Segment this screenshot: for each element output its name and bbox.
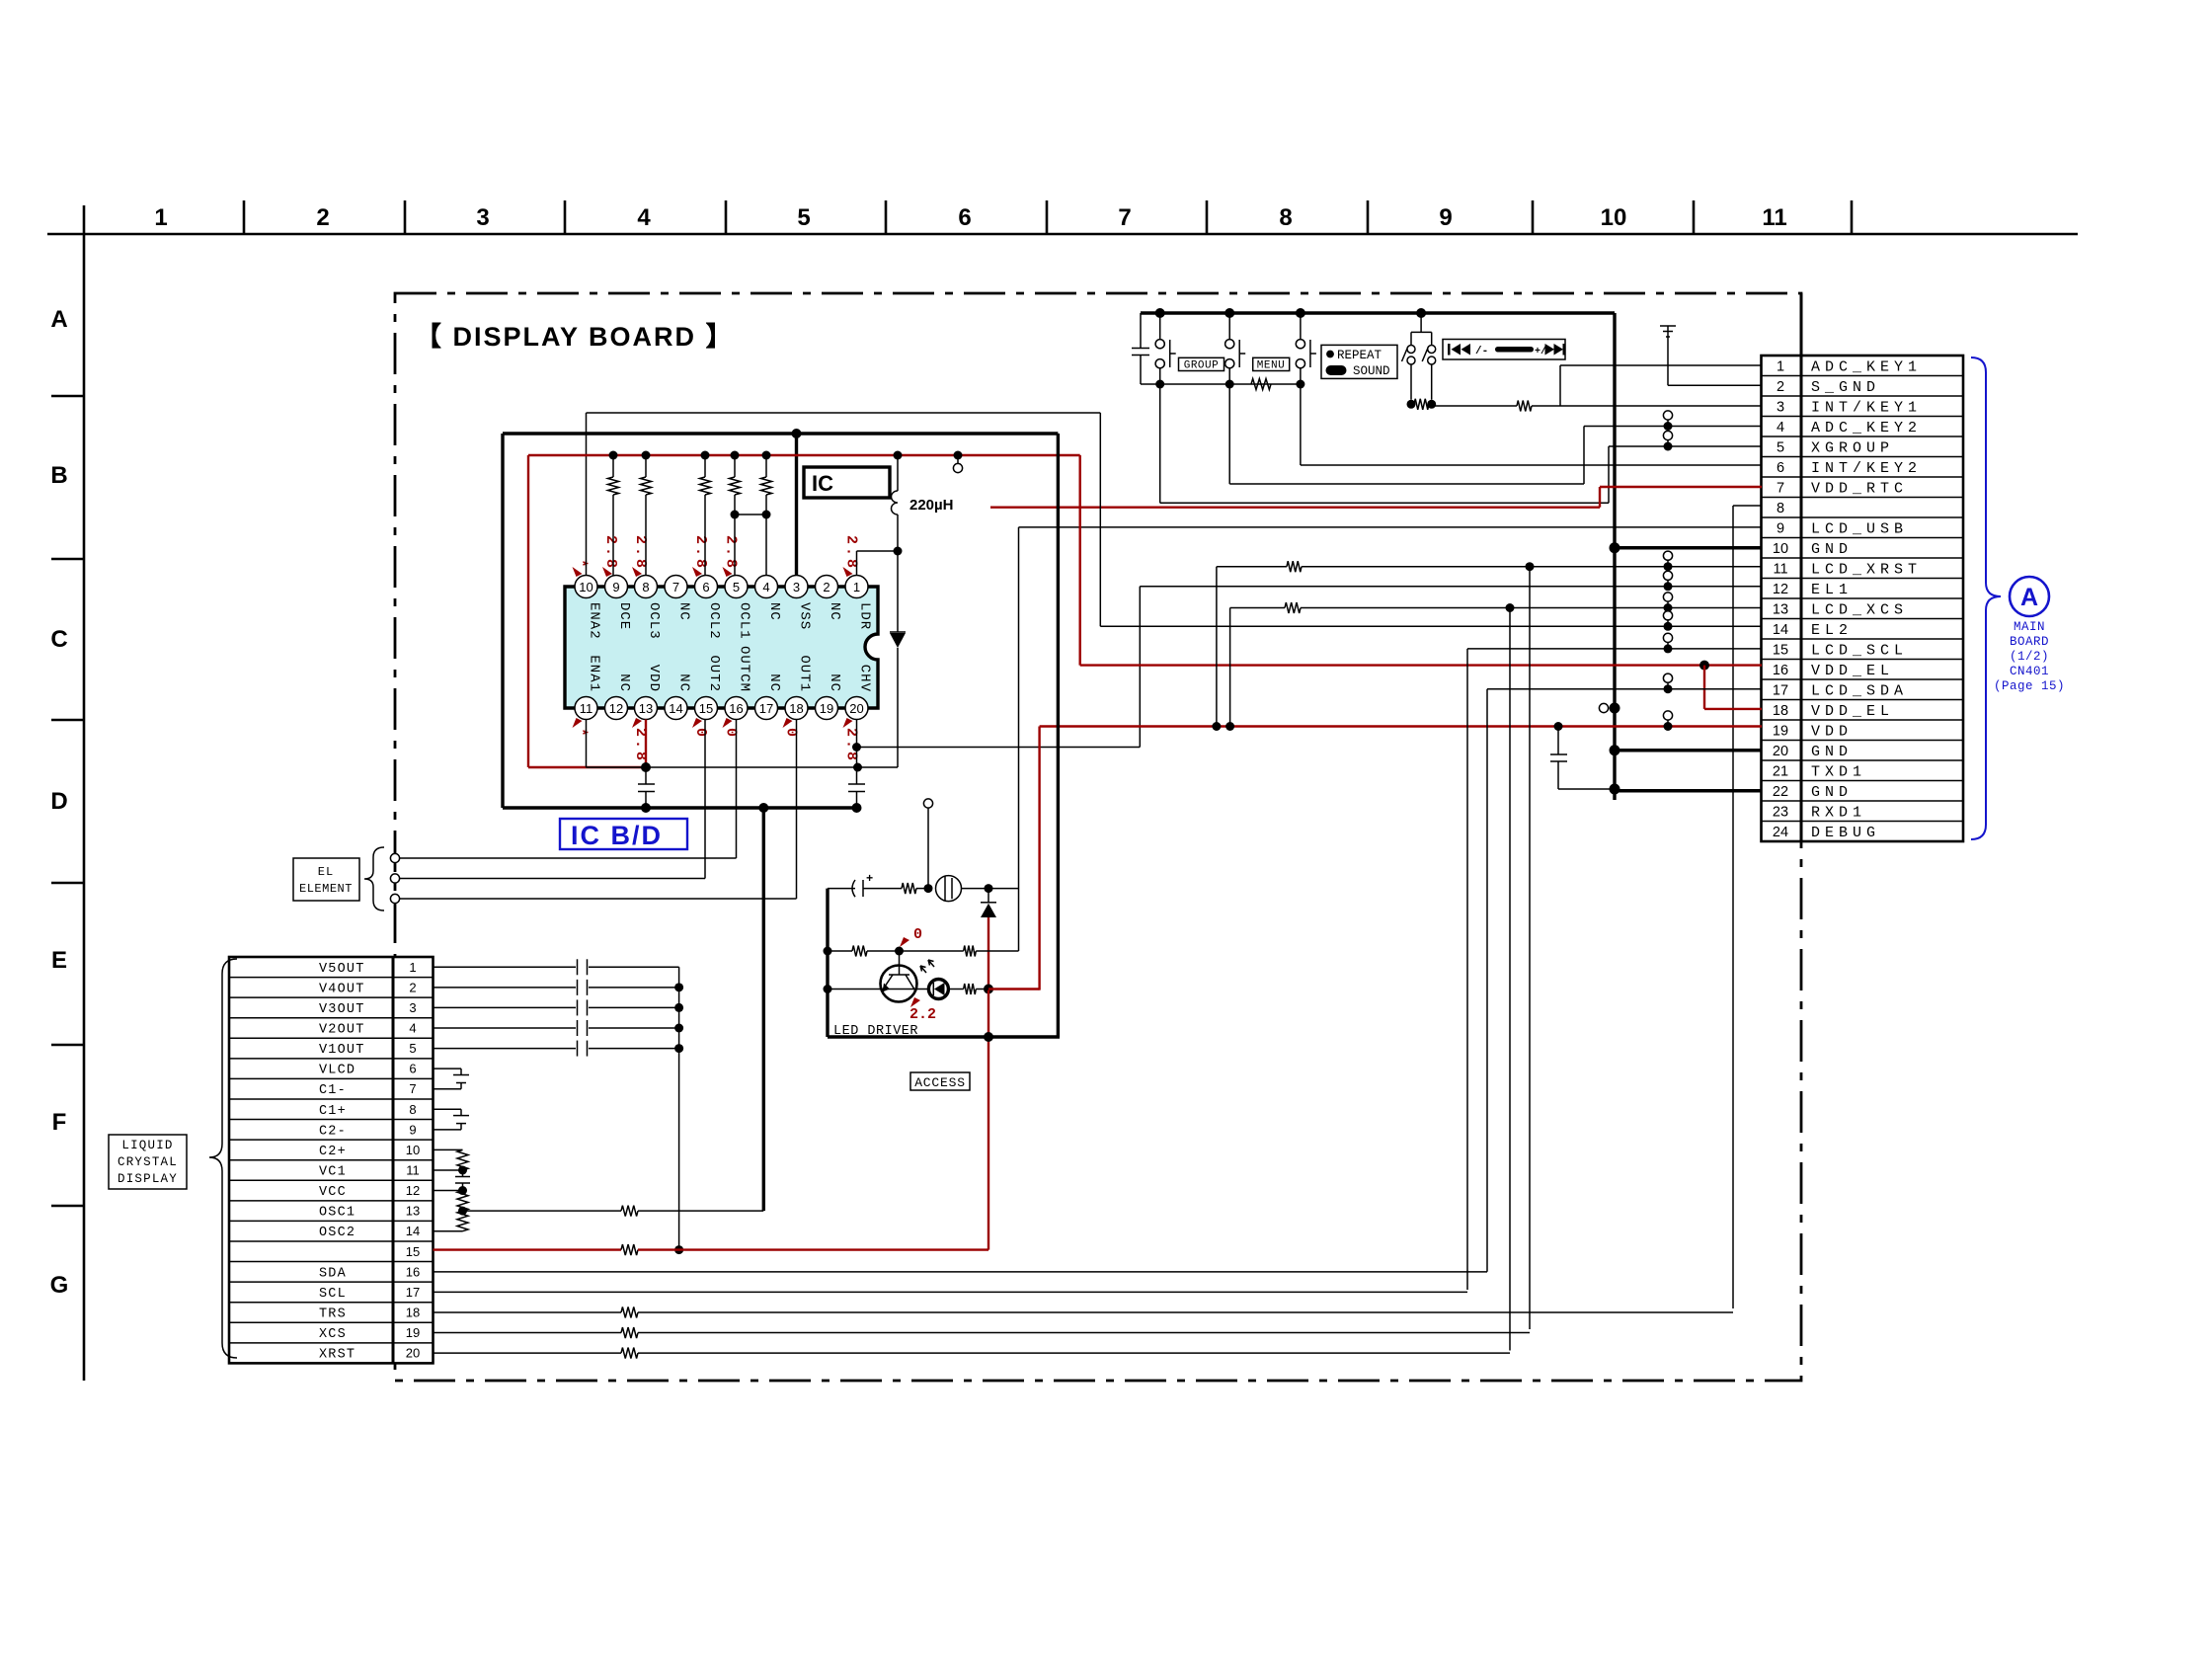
svg-text:5: 5 — [409, 1041, 416, 1056]
svg-text:VDD: VDD — [1811, 723, 1853, 740]
svg-text:8: 8 — [642, 580, 649, 594]
svg-text:RXD1: RXD1 — [1811, 804, 1866, 821]
svg-text:1: 1 — [409, 960, 416, 975]
svg-text:13: 13 — [639, 701, 653, 716]
svg-text:+/: +/ — [1535, 346, 1546, 357]
svg-text:LCD_SCL: LCD_SCL — [1811, 642, 1908, 659]
svg-text:GND: GND — [1811, 744, 1853, 760]
svg-text:2: 2 — [409, 980, 416, 994]
svg-text:OCL3: OCL3 — [646, 602, 662, 640]
svg-text:2.8: 2.8 — [692, 535, 709, 571]
svg-text:TXD1: TXD1 — [1811, 763, 1866, 780]
svg-text:13: 13 — [406, 1204, 420, 1219]
svg-text:10: 10 — [579, 580, 592, 594]
svg-text:EL2: EL2 — [1811, 622, 1853, 639]
svg-text:4: 4 — [409, 1020, 416, 1035]
svg-text:5: 5 — [797, 204, 810, 231]
svg-text:C2-: C2- — [319, 1124, 347, 1139]
svg-text:8: 8 — [409, 1102, 416, 1117]
svg-text:V1OUT: V1OUT — [319, 1043, 365, 1058]
svg-text:ELEMENT: ELEMENT — [299, 882, 353, 896]
svg-text:MAIN: MAIN — [2014, 620, 2045, 634]
svg-text:+: + — [866, 872, 873, 886]
svg-text:LCD_USB: LCD_USB — [1811, 520, 1908, 537]
svg-text:0: 0 — [913, 926, 922, 943]
svg-text:17: 17 — [759, 701, 773, 716]
svg-text:VC1: VC1 — [319, 1164, 347, 1179]
svg-text:GND: GND — [1811, 541, 1853, 558]
svg-text:8: 8 — [1279, 204, 1292, 231]
svg-text:XCS: XCS — [319, 1327, 347, 1342]
svg-text:VDD: VDD — [646, 665, 662, 692]
svg-text:V5OUT: V5OUT — [319, 962, 365, 977]
svg-text:7: 7 — [672, 580, 679, 594]
svg-text:(Page 15): (Page 15) — [1994, 679, 2065, 693]
svg-text:1: 1 — [154, 204, 167, 231]
svg-text:ADC_KEY2: ADC_KEY2 — [1811, 420, 1922, 436]
svg-text:12: 12 — [406, 1183, 420, 1198]
svg-text:DEBUG: DEBUG — [1811, 825, 1880, 841]
svg-text:CHV: CHV — [857, 665, 873, 692]
svg-text:20: 20 — [1773, 744, 1788, 759]
svg-text:7: 7 — [409, 1081, 416, 1096]
svg-text:24: 24 — [1773, 825, 1788, 840]
svg-text:(1/2): (1/2) — [2010, 650, 2049, 664]
svg-text:G: G — [50, 1272, 69, 1299]
svg-text:9: 9 — [1439, 204, 1452, 231]
svg-text:TRS: TRS — [319, 1307, 347, 1321]
svg-text:GND: GND — [1811, 784, 1853, 801]
svg-text:IC B/D: IC B/D — [571, 821, 663, 850]
svg-text:DCE: DCE — [616, 602, 632, 630]
svg-text:ENA2: ENA2 — [587, 602, 602, 640]
svg-text:11: 11 — [1762, 204, 1786, 231]
svg-text:C1+: C1+ — [319, 1104, 347, 1119]
svg-text:2.2: 2.2 — [909, 1006, 936, 1023]
svg-text:18: 18 — [406, 1305, 420, 1319]
svg-text:12: 12 — [1773, 582, 1788, 597]
svg-text:ADC_KEY1: ADC_KEY1 — [1811, 358, 1922, 375]
svg-text:S_GND: S_GND — [1811, 379, 1880, 396]
svg-text:20: 20 — [406, 1346, 420, 1361]
svg-text:SOUND: SOUND — [1353, 364, 1390, 378]
svg-text:CN401: CN401 — [2010, 665, 2049, 678]
svg-text:OCL2: OCL2 — [706, 602, 722, 640]
svg-text:3: 3 — [409, 1000, 416, 1015]
svg-text:10: 10 — [1601, 204, 1627, 231]
svg-text:XGROUP: XGROUP — [1811, 439, 1894, 456]
svg-text:C2+: C2+ — [319, 1145, 347, 1159]
svg-text:17: 17 — [406, 1285, 420, 1300]
svg-text:15: 15 — [699, 701, 713, 716]
svg-text:18: 18 — [789, 701, 803, 716]
svg-text:11: 11 — [580, 701, 593, 716]
svg-text:19: 19 — [1773, 723, 1788, 739]
svg-text:V4OUT: V4OUT — [319, 982, 365, 996]
svg-text:NC: NC — [766, 602, 782, 621]
svg-text:OUTCM: OUTCM — [737, 646, 752, 692]
svg-text:LDR: LDR — [857, 602, 873, 630]
svg-text:D: D — [50, 788, 67, 815]
svg-text:16: 16 — [406, 1264, 420, 1279]
svg-text:3: 3 — [476, 204, 489, 231]
svg-text:LCD_SDA: LCD_SDA — [1811, 682, 1908, 699]
svg-text:6: 6 — [958, 204, 971, 231]
svg-text:1: 1 — [853, 580, 860, 594]
svg-text:C: C — [50, 626, 67, 653]
svg-text:NC: NC — [616, 673, 632, 692]
svg-text:14: 14 — [406, 1224, 420, 1238]
svg-text:15: 15 — [406, 1244, 420, 1259]
svg-text:REPEAT: REPEAT — [1337, 349, 1382, 362]
svg-text:MENU: MENU — [1257, 360, 1285, 372]
svg-text:8: 8 — [1777, 501, 1784, 516]
svg-text:9: 9 — [409, 1122, 416, 1137]
svg-text:16: 16 — [1773, 663, 1788, 678]
svg-text:6: 6 — [702, 580, 709, 594]
svg-text:LCD_XRST: LCD_XRST — [1811, 561, 1922, 578]
svg-text:2.8: 2.8 — [723, 535, 740, 571]
svg-text:/-: /- — [1475, 346, 1488, 357]
svg-text:9: 9 — [612, 580, 619, 594]
svg-text:XRST: XRST — [319, 1348, 355, 1363]
svg-text:7: 7 — [1118, 204, 1131, 231]
svg-text:17: 17 — [1773, 682, 1788, 698]
svg-text:F: F — [52, 1109, 67, 1136]
svg-text:19: 19 — [406, 1325, 420, 1340]
svg-text:V3OUT: V3OUT — [319, 1002, 365, 1017]
svg-text:2.8: 2.8 — [602, 535, 619, 571]
svg-text:OUT2: OUT2 — [706, 655, 722, 692]
svg-text:16: 16 — [729, 701, 743, 716]
svg-text:INT/KEY2: INT/KEY2 — [1811, 460, 1922, 477]
svg-text:CRYSTAL: CRYSTAL — [118, 1155, 178, 1169]
svg-text:5: 5 — [733, 580, 740, 594]
svg-text:19: 19 — [820, 701, 833, 716]
svg-text:11: 11 — [1773, 561, 1787, 577]
svg-text:SCL: SCL — [319, 1287, 347, 1302]
svg-text:2: 2 — [316, 204, 329, 231]
svg-text:20: 20 — [849, 701, 863, 716]
svg-text:OCL1: OCL1 — [737, 602, 752, 640]
svg-text:A: A — [2020, 584, 2038, 611]
svg-text:SDA: SDA — [319, 1266, 347, 1281]
svg-text:VLCD: VLCD — [319, 1064, 355, 1078]
svg-text:IC: IC — [812, 471, 833, 496]
svg-text:14: 14 — [669, 701, 682, 716]
svg-text:21: 21 — [1773, 763, 1788, 779]
svg-text:VDD_EL: VDD_EL — [1811, 663, 1894, 679]
svg-text:NC: NC — [676, 673, 692, 692]
svg-text:EL1: EL1 — [1811, 582, 1853, 598]
svg-text:LIQUID: LIQUID — [121, 1139, 173, 1152]
svg-text:LED DRIVER: LED DRIVER — [833, 1024, 918, 1039]
svg-text:220µH: 220µH — [909, 497, 954, 514]
svg-text:OUT1: OUT1 — [797, 655, 813, 692]
svg-text:23: 23 — [1773, 804, 1788, 820]
svg-text:NC: NC — [676, 602, 692, 621]
svg-text:DISPLAY: DISPLAY — [118, 1172, 178, 1186]
svg-text:1: 1 — [1777, 358, 1784, 374]
svg-text:9: 9 — [1777, 520, 1784, 536]
svg-text:OSC2: OSC2 — [319, 1226, 355, 1240]
svg-text:【 DISPLAY BOARD 】: 【 DISPLAY BOARD 】 — [415, 322, 735, 352]
svg-text:NC: NC — [827, 673, 842, 692]
svg-text:3: 3 — [793, 580, 800, 594]
svg-text:5: 5 — [1777, 439, 1784, 455]
svg-text:0: 0 — [692, 728, 709, 740]
svg-text:6: 6 — [409, 1062, 416, 1076]
svg-text:EL: EL — [318, 865, 334, 879]
svg-text:C1-: C1- — [319, 1083, 347, 1098]
svg-text:ACCESS: ACCESS — [914, 1075, 966, 1090]
svg-text:3: 3 — [1777, 399, 1784, 415]
svg-text:LCD_XCS: LCD_XCS — [1811, 601, 1908, 618]
svg-text:4: 4 — [1777, 420, 1784, 436]
svg-text:VDD_RTC: VDD_RTC — [1811, 480, 1908, 497]
svg-text:11: 11 — [406, 1162, 420, 1177]
svg-text:OSC1: OSC1 — [319, 1206, 355, 1221]
svg-text:B: B — [50, 462, 67, 489]
svg-text:6: 6 — [1777, 460, 1784, 476]
svg-text:2: 2 — [1777, 379, 1784, 395]
svg-text:E: E — [51, 947, 67, 974]
svg-text:V2OUT: V2OUT — [319, 1022, 365, 1037]
svg-text:10: 10 — [1773, 541, 1788, 557]
svg-text:22: 22 — [1773, 784, 1788, 800]
svg-text:7: 7 — [1777, 480, 1784, 496]
svg-text:VDD_EL: VDD_EL — [1811, 703, 1894, 720]
svg-text:ENA1: ENA1 — [587, 655, 602, 692]
svg-text:10: 10 — [406, 1143, 420, 1157]
svg-text:4: 4 — [637, 204, 651, 231]
svg-text:14: 14 — [1773, 622, 1788, 638]
svg-text:4: 4 — [762, 580, 769, 594]
svg-text:A: A — [50, 306, 67, 333]
svg-text:15: 15 — [1773, 642, 1788, 658]
svg-text:12: 12 — [609, 701, 623, 716]
svg-text:BOARD: BOARD — [2010, 635, 2049, 649]
svg-text:18: 18 — [1773, 703, 1788, 719]
svg-text:NC: NC — [766, 673, 782, 692]
svg-text:NC: NC — [827, 602, 842, 621]
svg-text:INT/KEY1: INT/KEY1 — [1811, 399, 1922, 416]
svg-text:13: 13 — [1773, 601, 1788, 617]
svg-text:VSS: VSS — [797, 602, 813, 630]
svg-text:2: 2 — [823, 580, 829, 594]
svg-text:GROUP: GROUP — [1184, 360, 1220, 372]
svg-text:VCC: VCC — [319, 1185, 347, 1200]
